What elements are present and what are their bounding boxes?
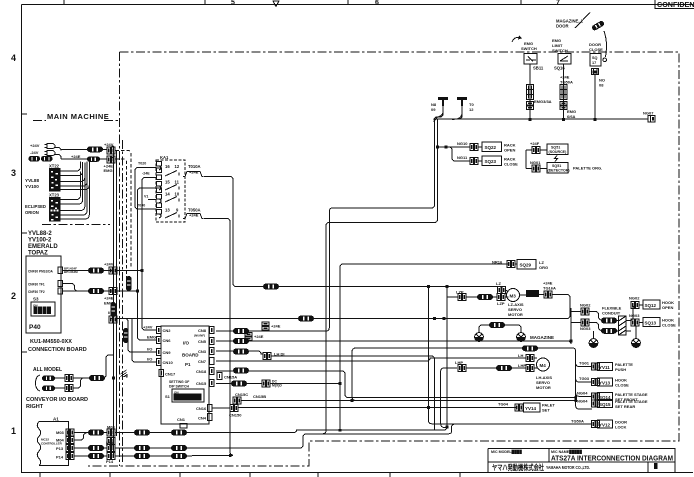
svg-text:TG50A: TG50A <box>571 419 584 424</box>
svg-text:ORG: ORG <box>539 265 548 270</box>
wire P40 +24V <box>63 270 112 272</box>
M03 connector <box>88 430 104 436</box>
svg-text:TG03: TG03 <box>579 376 590 381</box>
V1 stub <box>148 199 157 201</box>
NR16 connector <box>507 261 515 268</box>
LH wire <box>216 358 537 361</box>
svg-text:KU1-M4550-0XX: KU1-M4550-0XX <box>30 339 72 345</box>
svg-text:TG04: TG04 <box>498 402 509 407</box>
SQ51 DETECTOR box <box>547 163 568 174</box>
svg-text:13: 13 <box>165 208 170 213</box>
svg-text:2: 2 <box>11 291 16 301</box>
LH DI connector <box>263 353 271 360</box>
svg-text:MR01: MR01 <box>527 293 537 297</box>
motor M4 <box>537 358 550 371</box>
wire bundle A lower step <box>192 434 449 448</box>
svg-text:T010A: T010A <box>188 164 201 169</box>
svg-text:YV13: YV13 <box>599 381 611 386</box>
svg-text:(NU/NF): (NU/NF) <box>194 334 205 338</box>
svg-text:OPEN: OPEN <box>662 305 673 310</box>
wire KA1 W1 vertical <box>204 177 236 287</box>
A1 controller box wavy <box>37 422 68 466</box>
KA1 T020 to T090 link <box>135 168 157 210</box>
right cluster vertical <box>570 308 572 344</box>
LZP connector 2 <box>497 294 505 301</box>
svg-text:CLOSE: CLOSE <box>504 162 518 167</box>
svg-text:MOTOR: MOTOR <box>508 312 523 317</box>
SQ22 link <box>479 146 482 148</box>
svg-text:SQ: SQ <box>592 56 598 60</box>
svg-text:11: 11 <box>175 180 180 185</box>
contact 13-9 plateau <box>183 214 204 219</box>
LH encoder wire <box>356 347 573 349</box>
svg-text:SET REAR: SET REAR <box>615 404 635 409</box>
wire row A <box>55 148 107 151</box>
NG04 row branch <box>576 393 592 396</box>
P13 connector 2 <box>134 445 150 451</box>
svg-text:I/O: I/O <box>147 357 152 362</box>
svg-text:LZP: LZP <box>497 301 505 306</box>
KA1 dashed box <box>156 160 185 222</box>
svg-text:CONVEYOR I/O BOARD: CONVEYOR I/O BOARD <box>26 397 88 403</box>
M04 boundary connector <box>107 438 115 445</box>
svg-text:+24V: +24V <box>30 143 40 148</box>
svg-text:S3: S3 <box>33 297 39 302</box>
svg-text:SQ15: SQ15 <box>599 402 611 407</box>
svg-text:P13: P13 <box>56 446 64 451</box>
LZP wire <box>447 296 509 298</box>
boundary connector row A <box>107 147 115 154</box>
svg-text:P40: P40 <box>29 324 41 331</box>
boundary connector row B <box>107 156 115 163</box>
power plug lower <box>45 151 56 156</box>
hook lamp 1 <box>589 339 598 348</box>
TF1-TF2 jog wire <box>63 284 78 292</box>
CN9 left wire <box>125 319 157 353</box>
P13 connector 3 <box>171 445 187 451</box>
SQ23 link <box>479 160 482 162</box>
magazine lamp connector <box>489 322 505 328</box>
NG10 connector <box>470 144 478 151</box>
left bus wire 1 <box>113 146 115 455</box>
svg-text:08: 08 <box>599 83 604 88</box>
P14 connector <box>88 453 104 459</box>
svg-text:NG11: NG11 <box>457 155 468 160</box>
all model row1 tail <box>102 355 114 378</box>
I/O boundary connector <box>109 316 117 323</box>
NG03 right connector <box>631 319 639 326</box>
svg-text:CN6: CN6 <box>163 338 172 343</box>
CN15 oval connector <box>231 381 247 387</box>
CN10 left wire <box>132 319 157 363</box>
svg-text:CONDUIT: CONDUIT <box>602 311 621 316</box>
svg-text:SWITCH: SWITCH <box>552 48 568 53</box>
wire bundle B: bus to P13 row <box>323 120 438 434</box>
NG07 end connector <box>648 116 655 123</box>
S1 dip switch <box>172 389 204 402</box>
svg-text:CN16: CN16 <box>196 406 207 411</box>
NG01 connector <box>532 165 540 172</box>
boundary connector TF2 <box>109 288 117 295</box>
svg-text:CN4: CN4 <box>198 416 207 421</box>
left bus wire 2 <box>116 150 118 436</box>
SQ51 SOURCE box <box>547 144 568 155</box>
P13 connector <box>88 445 104 451</box>
wire P14 row <box>192 455 233 457</box>
svg-text:BOARD: BOARD <box>182 353 199 358</box>
svg-text:10: 10 <box>175 192 180 197</box>
all model row1 connector <box>42 376 55 382</box>
conduit oval 2 <box>601 328 617 334</box>
T0 plug <box>457 97 467 106</box>
svg-text:SQ51: SQ51 <box>551 146 560 150</box>
svg-text:12: 12 <box>469 107 474 112</box>
svg-text:M03: M03 <box>56 430 65 435</box>
CN3 oval connector <box>233 349 249 355</box>
hook lamp 2 <box>632 339 641 348</box>
motor M3 <box>507 289 520 302</box>
svg-text:CN18: CN18 <box>196 369 207 374</box>
svg-text:CN15C: CN15C <box>235 392 248 397</box>
M04 jog wire <box>75 433 87 440</box>
LH encoder connector <box>522 345 538 351</box>
connector TF2 <box>88 288 104 294</box>
connector CN row A <box>87 146 103 152</box>
svg-text:16: 16 <box>165 164 170 169</box>
XT22 fan wires <box>61 161 90 190</box>
svg-text:EMG: EMG <box>104 168 113 173</box>
M03 connector 3 <box>171 430 187 436</box>
svg-text:SET: SET <box>542 408 550 413</box>
CN1 connector <box>180 424 187 429</box>
left bus to row A join <box>112 146 114 319</box>
LHP wire <box>467 367 537 369</box>
svg-text:SB11: SB11 <box>533 66 544 71</box>
NG02 stub <box>571 312 602 321</box>
svg-text:YV11: YV11 <box>599 365 610 370</box>
wire W1 descender <box>429 287 455 424</box>
confidential box <box>655 0 694 9</box>
connector row B <box>87 156 100 162</box>
SB11 junction <box>527 102 534 110</box>
CN2 feed wire <box>118 270 142 272</box>
wire CN15C row <box>242 400 576 402</box>
svg-text:+24V: +24V <box>143 325 153 330</box>
TG04 connector <box>515 404 523 411</box>
svg-text:CLOSE: CLOSE <box>589 47 603 52</box>
svg-text:CN10: CN10 <box>163 360 174 365</box>
N8 plug wire <box>434 106 443 120</box>
NR16 wire <box>343 263 508 265</box>
svg-text:+24F: +24F <box>530 141 540 146</box>
svg-text:LZ: LZ <box>496 281 501 286</box>
S3 dip switch <box>31 302 55 316</box>
CN15 tap connector <box>262 380 270 387</box>
CN8 connector <box>210 327 215 334</box>
CN6 feed wire <box>118 290 138 292</box>
svg-text:3: 3 <box>11 168 16 178</box>
svg-text:1: 1 <box>11 426 16 436</box>
bus connector v2 <box>126 276 132 291</box>
main machine label line <box>33 120 119 122</box>
svg-text:CN17: CN17 <box>165 372 176 377</box>
svg-text:MAIN MACHINE: MAIN MACHINE <box>47 112 109 121</box>
NG01 wire <box>526 150 547 169</box>
left border ticks <box>22 114 28 352</box>
svg-text:MAGAZINE: MAGAZINE <box>530 335 554 340</box>
svg-text:XT23: XT23 <box>49 193 60 198</box>
svg-text:TG16A: TG16A <box>543 286 556 291</box>
bus connector v1 <box>111 302 117 317</box>
conduit hatched tube <box>619 316 627 335</box>
I/O loop connector <box>298 316 314 322</box>
CNF30 TF2 connector <box>58 288 63 294</box>
NG02 right connector <box>631 302 639 309</box>
svg-text:M3: M3 <box>510 294 517 299</box>
svg-text:I/O: I/O <box>147 347 152 352</box>
svg-text:YV14: YV14 <box>525 406 537 411</box>
CN6 connector <box>157 337 162 344</box>
conduit oval 1 <box>601 318 617 324</box>
contact 16-12 <box>165 171 179 177</box>
svg-text:ALL MODEL: ALL MODEL <box>33 367 62 373</box>
CN8 oval connector <box>233 328 249 334</box>
(J2Y)(J2B) label <box>29 156 53 162</box>
svg-text:14: 14 <box>165 192 170 197</box>
M03 boundary connector <box>107 429 115 436</box>
P14 boundary connector <box>107 453 115 460</box>
svg-text:PALETTE ORG.: PALETTE ORG. <box>573 166 602 171</box>
svg-text:NG01: NG01 <box>530 160 541 165</box>
svg-text:6: 6 <box>375 0 379 7</box>
left section separator dash <box>42 224 110 226</box>
svg-text:5: 5 <box>231 0 235 7</box>
svg-text:SQ51: SQ51 <box>552 164 561 168</box>
magazine lamp 2 <box>517 333 526 342</box>
XT23 terminal block <box>49 197 61 222</box>
all model row1 wire <box>55 377 89 379</box>
svg-text:CN7: CN7 <box>198 359 207 364</box>
contact 13-9 <box>165 213 179 219</box>
svg-text:NG07: NG07 <box>643 111 654 116</box>
svg-text:(SOURCE): (SOURCE) <box>549 150 568 154</box>
svg-text:YV12: YV12 <box>599 423 611 428</box>
svg-text:CNF30 PNS1/DA: CNF30 PNS1/DA <box>28 270 53 274</box>
TG50A row wire with jog <box>449 424 592 434</box>
contact 15-11 <box>165 185 179 191</box>
YV13 box <box>598 378 613 386</box>
svg-text:XT22: XT22 <box>49 164 60 169</box>
svg-text:ATS27A INTERCONNECTION DIAGRAM: ATS27A INTERCONNECTION DIAGRAM <box>551 456 673 463</box>
svg-text:SETTING OF: SETTING OF <box>169 380 189 384</box>
wire plug2 <box>452 107 462 120</box>
svg-text:+24E: +24E <box>271 324 281 329</box>
LHP connector left <box>458 365 466 372</box>
svg-text:M(X)D: M(X)D <box>272 384 282 388</box>
svg-text:9: 9 <box>176 208 179 213</box>
all model row2 box pair <box>65 385 73 392</box>
svg-text:ECLIPSED: ECLIPSED <box>25 204 46 209</box>
all model brace <box>36 375 41 391</box>
T0 plug wire <box>459 106 462 119</box>
svg-text:CONFIDENT: CONFIDENT <box>657 0 694 9</box>
CN5 +24E tap <box>245 333 252 341</box>
+24F connector <box>532 147 540 154</box>
SB11 stem wire <box>529 64 531 119</box>
svg-text:NG02: NG02 <box>580 303 591 308</box>
SQ13 link <box>640 322 643 324</box>
+24F wire <box>526 149 547 151</box>
switch SQ22 box <box>482 142 502 152</box>
CNF30 TF1 connector <box>58 281 63 287</box>
svg-text:CLOSE: CLOSE <box>662 323 676 328</box>
I/O board box <box>161 326 209 424</box>
wire CN16 to CN150 <box>212 407 230 409</box>
LH encoder riser <box>352 348 356 401</box>
YV12 box <box>598 420 613 428</box>
CN10 connector <box>157 359 162 366</box>
TG01 row branch <box>576 364 592 367</box>
XT23 fan wires <box>61 172 90 220</box>
svg-text:09: 09 <box>431 107 436 112</box>
svg-text:P14: P14 <box>106 459 114 464</box>
all model row1 box pair <box>65 375 73 382</box>
CN5 oval connector <box>233 338 249 344</box>
TG01 connector <box>592 363 600 370</box>
P13 boundary connector <box>107 445 115 452</box>
svg-text:CNF30 TF1: CNF30 TF1 <box>28 283 45 287</box>
svg-text:CN15A: CN15A <box>224 375 237 380</box>
bottom border ticks <box>40 473 460 477</box>
svg-text:DIP SWITCH: DIP SWITCH <box>169 385 189 389</box>
LHP oval connector <box>496 365 512 371</box>
svg-text:YV100-2: YV100-2 <box>28 238 52 244</box>
svg-text:17: 17 <box>592 61 596 65</box>
SQ29 link <box>516 263 517 265</box>
SQ13 box <box>643 318 660 327</box>
svg-text:YV100: YV100 <box>25 184 39 189</box>
N8 plug <box>438 97 448 106</box>
YV14 box <box>524 403 541 412</box>
SQ14 box <box>598 392 613 400</box>
title block <box>488 449 675 473</box>
LHP descender <box>441 368 457 427</box>
svg-text:NG04: NG04 <box>577 390 588 395</box>
P14 connector 2 <box>134 453 150 459</box>
switch SQ16 <box>558 54 571 65</box>
svg-text:A1: A1 <box>53 417 59 422</box>
svg-text:M4: M4 <box>540 363 547 368</box>
svg-text:NG04: NG04 <box>577 398 588 403</box>
svg-text:-24E: -24E <box>142 172 150 176</box>
CN150 connector <box>230 405 238 412</box>
LHP connector right <box>526 365 534 372</box>
SQ16 ladder connector <box>560 85 567 100</box>
SQ16 stem wire <box>563 64 565 119</box>
svg-text:NG03: NG03 <box>629 313 640 318</box>
svg-text:EMERALD: EMERALD <box>28 244 58 250</box>
wire bundle A: plugs to CN8 row <box>216 107 443 331</box>
svg-text:SQ23: SQ23 <box>485 159 497 164</box>
wire CN15 row <box>216 383 340 385</box>
contact 14-10 <box>165 197 179 203</box>
all model row1 connector 2 <box>89 375 105 381</box>
LH connector <box>526 355 534 362</box>
NG11 connector <box>470 158 478 165</box>
magazine lamp 1 <box>475 333 484 342</box>
wire TF2 <box>63 290 112 292</box>
svg-text:LHP: LHP <box>518 363 526 368</box>
svg-text:CN15: CN15 <box>196 381 207 386</box>
svg-text:T020: T020 <box>138 162 146 166</box>
magazine door connector <box>591 20 605 31</box>
TG03 row branch <box>576 379 592 382</box>
svg-text:SQ29: SQ29 <box>520 263 532 268</box>
LZP oval connector <box>477 294 493 300</box>
CN8 +24E tap <box>262 322 269 330</box>
svg-text:S1: S1 <box>165 394 171 399</box>
svg-text:CLOSE: CLOSE <box>615 383 629 388</box>
P40 board box <box>26 256 61 333</box>
CN4 connector <box>208 414 213 421</box>
switch SQ29 box <box>517 260 536 270</box>
svg-text:P1: P1 <box>185 362 191 367</box>
SQ12 box <box>643 300 660 309</box>
MR01 connector <box>544 291 552 298</box>
CN5 connector <box>210 338 215 345</box>
switch SQ17 <box>590 54 601 67</box>
W1 connector <box>263 284 279 290</box>
svg-text:YVL88-2: YVL88-2 <box>28 231 52 237</box>
svg-text:NG10: NG10 <box>457 141 468 146</box>
svg-text:EMG3/3A: EMG3/3A <box>534 99 552 104</box>
power plug upper <box>45 144 55 149</box>
XT22 terminal block <box>49 168 61 192</box>
hook lamp stems <box>594 327 637 339</box>
svg-text:LOCK: LOCK <box>615 425 626 430</box>
connector P40 +24V <box>88 268 104 274</box>
TG04 wire <box>239 407 517 409</box>
wire KA1 W2 vertical <box>204 219 233 456</box>
svg-text:TG01: TG01 <box>579 361 590 366</box>
svg-text:(DETECTOR): (DETECTOR) <box>548 169 571 173</box>
svg-text:CN150: CN150 <box>229 413 242 418</box>
CN17 connector <box>159 370 164 377</box>
svg-text:TG50A: TG50A <box>560 80 573 85</box>
M03 wire <box>75 432 108 434</box>
CN15 connector <box>210 380 215 387</box>
svg-text:KA1: KA1 <box>160 155 169 160</box>
top reference triangle <box>273 1 279 7</box>
svg-text:7: 7 <box>556 0 560 7</box>
NG03 connector <box>581 319 589 326</box>
wire CN3 to LH DI <box>216 351 263 354</box>
svg-text:+24E: +24E <box>71 154 81 159</box>
svg-text:MOTOR: MOTOR <box>536 385 551 390</box>
svg-text:4: 4 <box>11 53 16 63</box>
top border ticks <box>64 0 521 5</box>
YV11 box <box>598 363 613 371</box>
svg-text:CN9: CN9 <box>163 350 172 355</box>
svg-text:15: 15 <box>165 180 170 185</box>
NG11 wire <box>449 147 470 161</box>
TG50A connector <box>592 421 600 428</box>
CN18 oval connector <box>233 368 249 374</box>
svg-text:CN8: CN8 <box>198 328 207 333</box>
CN9 connector <box>157 349 162 356</box>
NG03 stub <box>571 323 612 331</box>
M03 wire 2 <box>116 432 193 434</box>
